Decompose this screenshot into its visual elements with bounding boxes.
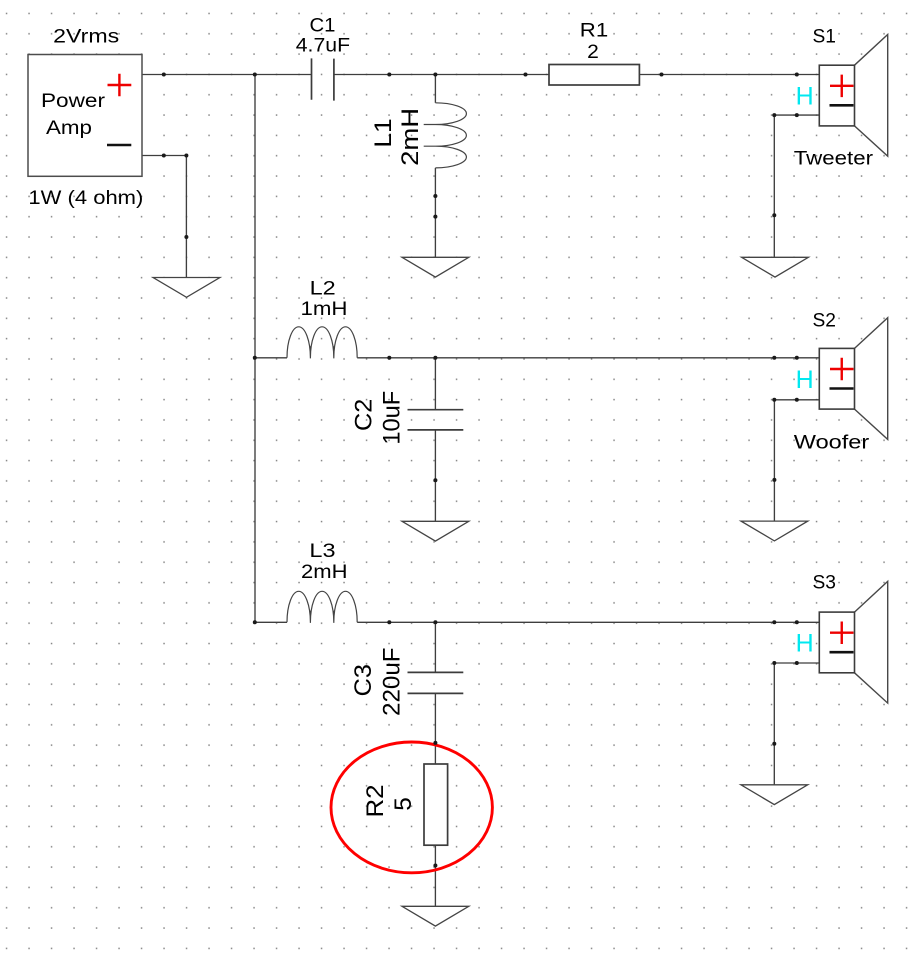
power amp minus sign <box>107 144 131 147</box>
wire C3 to R2 <box>434 693 436 764</box>
junction top net A <box>387 73 391 77</box>
junction PA ground wire <box>184 235 188 239</box>
red highlight ellipse <box>331 742 492 873</box>
junction R1 left <box>524 73 528 77</box>
wire L1 top <box>434 75 436 103</box>
wire C2 bottom <box>434 430 436 521</box>
svg-text:10uF: 10uF <box>379 391 406 445</box>
junction top net / L1 <box>433 73 437 77</box>
wire C3 top <box>434 622 436 672</box>
junction top net / bus <box>253 73 257 77</box>
capacitor C3 <box>408 672 464 693</box>
junction low net / C3 <box>433 620 437 624</box>
junction L1 bottom a <box>433 194 437 198</box>
svg-text:Power: Power <box>41 90 106 112</box>
svg-text:2mH: 2mH <box>397 108 424 166</box>
junction S2 minus corner <box>772 398 776 402</box>
ground S1 <box>742 257 809 277</box>
speaker S3 <box>796 581 888 703</box>
resistor R2 <box>424 764 448 845</box>
capacitor C1 <box>312 58 334 100</box>
wire top net <box>142 74 312 76</box>
junction C3 / R2 node <box>433 741 437 745</box>
wire vertical bus <box>254 75 256 623</box>
wire row3 left <box>255 621 287 623</box>
power amp U1 box <box>28 55 142 177</box>
svg-text:220uF: 220uF <box>378 647 405 716</box>
junction PA output node <box>162 73 166 77</box>
junction S1 ground wire <box>772 213 776 217</box>
svg-text:1mH: 1mH <box>301 298 348 320</box>
ground PA <box>153 278 220 298</box>
junction S2 plus <box>795 356 799 360</box>
ground S2 <box>741 521 808 541</box>
svg-text:Woofer: Woofer <box>794 432 870 454</box>
svg-text:Amp: Amp <box>46 117 92 139</box>
junction S1 minus <box>795 113 799 117</box>
junction mid net / C2 <box>433 356 437 360</box>
svg-text:2Vrms: 2Vrms <box>53 26 119 48</box>
capacitor C2 <box>408 410 464 430</box>
resistor R1 <box>549 65 639 86</box>
junction S1 minus corner <box>772 113 776 117</box>
svg-text:2: 2 <box>587 41 599 63</box>
junction S3 minus corner <box>772 661 776 665</box>
wire row2 left <box>255 357 287 359</box>
wire row2 right <box>357 357 819 359</box>
junction S2 plus corner <box>772 356 776 360</box>
wire PA minus <box>142 156 186 278</box>
svg-text:R1: R1 <box>580 20 608 42</box>
svg-text:1W (4 ohm): 1W (4 ohm) <box>28 187 143 209</box>
junction S2 ground wire <box>772 478 776 482</box>
svg-text:R2: R2 <box>362 784 389 817</box>
svg-text:C1: C1 <box>310 14 336 36</box>
speaker S2 <box>796 318 888 440</box>
svg-text:5: 5 <box>390 797 417 811</box>
junction R2 / ground node <box>433 864 437 868</box>
junction S2 minus <box>795 398 799 402</box>
svg-text:S1: S1 <box>812 25 836 47</box>
speaker S1 <box>796 34 888 156</box>
svg-text:2mH: 2mH <box>301 561 348 583</box>
svg-text:4.7uF: 4.7uF <box>296 34 350 56</box>
svg-text:C2: C2 <box>351 399 378 431</box>
wire S2 minus <box>774 400 819 521</box>
junction S1 plus <box>795 73 799 77</box>
wire L1 bottom to ground <box>434 168 436 257</box>
svg-text:L2: L2 <box>310 277 336 299</box>
ground R2 <box>402 906 469 926</box>
junction PA minus corner <box>184 154 188 158</box>
wire S3 minus <box>774 663 819 785</box>
svg-text:C3: C3 <box>350 664 377 696</box>
junction bus / L2 <box>253 356 257 360</box>
junction L1 bottom b <box>433 215 437 219</box>
junction S3 minus <box>795 661 799 665</box>
junction mid net A <box>387 356 391 360</box>
wire row3 right <box>357 621 819 623</box>
svg-text:S3: S3 <box>812 572 836 594</box>
svg-text:L1: L1 <box>370 118 397 147</box>
junction PA minus a <box>162 154 166 158</box>
junction bus / L3 <box>253 620 257 624</box>
junction S3 ground wire <box>772 742 776 746</box>
power amp plus sign <box>108 74 132 97</box>
wire R2 to ground <box>434 845 436 906</box>
ground L1 <box>402 257 469 277</box>
inductor L3 <box>287 591 357 623</box>
inductor L2 <box>287 327 357 359</box>
svg-text:Tweeter: Tweeter <box>794 148 874 170</box>
svg-text:S2: S2 <box>812 309 836 331</box>
ground C2 <box>402 521 469 541</box>
junction C2 ground wire <box>433 478 437 482</box>
wire S1 minus <box>774 115 819 257</box>
junction S3 plus <box>795 620 799 624</box>
ground S3 <box>741 785 808 805</box>
svg-text:L3: L3 <box>309 540 335 562</box>
junction S3 plus corner <box>772 620 776 624</box>
wire C2 top <box>434 358 436 410</box>
junction low net A <box>387 620 391 624</box>
inductor L1 <box>424 103 467 168</box>
junction R1 right <box>660 73 664 77</box>
